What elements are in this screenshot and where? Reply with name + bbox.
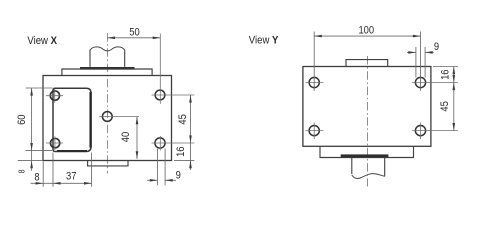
svg-text:16: 16 xyxy=(440,69,452,80)
hole center view X xyxy=(102,112,112,122)
svg-text:9: 9 xyxy=(434,42,440,54)
weld bar above shaft view Y xyxy=(341,154,389,157)
svg-text:45: 45 xyxy=(439,101,451,112)
body outline view X xyxy=(43,76,172,161)
svg-text:9: 9 xyxy=(176,170,182,182)
body outline view Y xyxy=(303,67,431,147)
svg-text:8: 8 xyxy=(17,169,27,173)
svg-text:16: 16 xyxy=(176,146,188,157)
extension lines bottom dims view X xyxy=(42,162,44,187)
shaft break (wavy) view X xyxy=(90,47,125,51)
top plate view X xyxy=(62,69,152,75)
bracket hole bottom-left view X xyxy=(50,138,59,147)
dimension 45 right view Y xyxy=(453,83,455,131)
hole top-right view Y xyxy=(415,77,425,87)
centerline vertical view X xyxy=(106,33,108,174)
extension lines right dims view X xyxy=(174,160,194,162)
hole bottom-left view Y xyxy=(309,126,319,136)
crosshair hole bottom-right Y to 45-dim xyxy=(412,130,458,132)
crosshair hole bottom-left Y xyxy=(306,130,324,132)
crosshair hole bottom-left xyxy=(46,142,63,144)
svg-text:37: 37 xyxy=(66,171,77,183)
weld bar under shaft view X xyxy=(80,67,135,70)
crosshair hole bottom-right xyxy=(152,142,195,144)
bracket thick bottom edge xyxy=(57,150,87,152)
svg-text:View X: View X xyxy=(27,35,57,47)
crosshair hole top-right Y to 16-dim xyxy=(412,82,458,84)
shaft break (wavy) view Y xyxy=(352,174,385,179)
bracket rounded rectangle view X xyxy=(53,88,91,151)
dimension 16 right view Y xyxy=(453,67,455,83)
dimension 8 vertical left view X xyxy=(18,160,43,162)
dimension 45 right view X xyxy=(190,95,192,161)
dimension 9 top right view Y (hole diameter) xyxy=(415,47,417,78)
hole top-right view X xyxy=(155,90,165,100)
top tab view Y xyxy=(346,60,388,67)
extension line body top right view Y xyxy=(433,66,458,68)
hole bottom-right view Y xyxy=(415,126,425,136)
crosshair hole top-left Y xyxy=(306,82,324,84)
bottom boss view X xyxy=(88,161,128,166)
hole bottom-right view X xyxy=(155,138,165,148)
svg-text:40: 40 xyxy=(121,131,133,142)
dimension 16 right view X xyxy=(190,161,192,170)
extension line 50-dim down through hole top-right xyxy=(159,34,161,104)
dimension 100 top view Y xyxy=(313,32,315,91)
crosshair / extension through hole top-right (horizontal to 45-dim) xyxy=(152,94,195,96)
dimension 9 bottom right view X xyxy=(156,149,158,186)
shaft right edge view Y xyxy=(384,158,386,177)
centerline vertical view Y xyxy=(367,56,369,187)
svg-text:60: 60 xyxy=(17,114,29,125)
svg-text:8: 8 xyxy=(34,172,40,184)
bracket thick right edge xyxy=(89,92,91,148)
crosshair / extension from center hole to 40-dim xyxy=(99,116,139,118)
svg-text:100: 100 xyxy=(358,25,374,37)
dimension line 8 / 37 bottom view X xyxy=(31,182,92,184)
dimension 40 center view X xyxy=(136,117,138,159)
shaft right edge view X xyxy=(124,50,126,67)
svg-text:50: 50 xyxy=(129,27,140,39)
svg-text:45: 45 xyxy=(177,114,189,125)
bracket hole top-left view X xyxy=(50,91,59,100)
svg-text:View Y: View Y xyxy=(249,35,279,47)
bottom flange view Y xyxy=(320,146,414,157)
shaft left edge view X xyxy=(89,50,91,67)
shaft left edge view Y xyxy=(351,158,353,175)
hole top-left view Y xyxy=(309,77,319,87)
dimension 60 left view X xyxy=(26,87,53,89)
crosshair hole top-left xyxy=(46,95,63,97)
dimension 50 top view X xyxy=(107,37,160,39)
